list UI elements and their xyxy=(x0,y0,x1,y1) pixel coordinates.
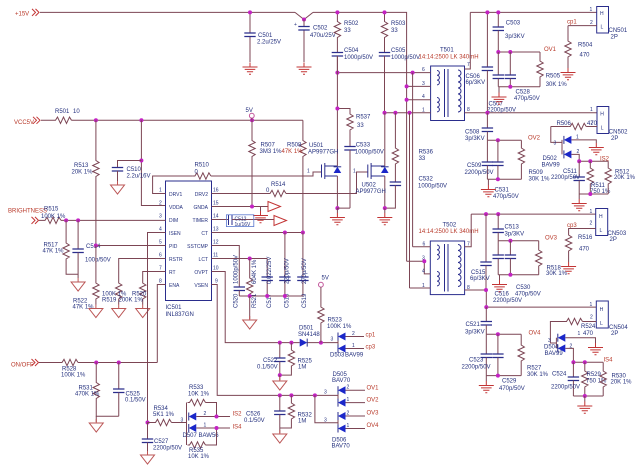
svg-text:100K 1%: 100K 1% xyxy=(41,214,66,220)
svg-text:C528: C528 xyxy=(516,90,531,96)
svg-text:BAV99: BAV99 xyxy=(542,162,561,168)
ground C522 R525 xyxy=(273,375,287,390)
svg-text:D503: D503 xyxy=(330,353,345,359)
wire T501 pin1 xyxy=(385,108,431,114)
svg-text:D504: D504 xyxy=(544,345,559,351)
resistor R525 1M xyxy=(280,343,313,376)
svg-text:R502: R502 xyxy=(344,21,359,27)
capacitor C530 xyxy=(505,241,541,298)
svg-text:6p/3KV: 6p/3KV xyxy=(466,80,486,86)
svg-text:OV2: OV2 xyxy=(367,398,380,404)
ground OV1 network xyxy=(492,87,507,105)
node OV3 xyxy=(498,236,557,242)
junction OV2 bottom xyxy=(496,177,500,181)
svg-text:2P: 2P xyxy=(611,331,618,337)
capacitor C525 xyxy=(113,363,146,417)
svg-text:1: 1 xyxy=(578,331,581,337)
svg-text:IS4: IS4 xyxy=(604,358,614,364)
svg-text:3M3 1%: 3M3 1% xyxy=(260,149,283,155)
dual diode D504 BAV99 xyxy=(544,331,596,362)
resistor R536 33 xyxy=(392,113,433,166)
svg-text:100K 1%: 100K 1% xyxy=(61,373,86,379)
resistor R509 30K xyxy=(518,140,550,182)
svg-text:OV4: OV4 xyxy=(529,331,542,337)
svg-text:2: 2 xyxy=(159,201,162,207)
svg-text:470: 470 xyxy=(587,121,598,127)
svg-text:2200p/50V: 2200p/50V xyxy=(465,170,494,176)
svg-text:SN4148: SN4148 xyxy=(298,332,320,338)
svg-text:IS4: IS4 xyxy=(233,425,243,431)
svg-text:2200p/50V: 2200p/50V xyxy=(153,446,182,452)
svg-text:1000p/50V: 1000p/50V xyxy=(355,149,384,155)
wire IS4 bottom xyxy=(573,395,603,397)
svg-text:8: 8 xyxy=(159,279,162,285)
wire T501 pin8 HV2 xyxy=(465,107,598,113)
svg-text:OV4: OV4 xyxy=(367,423,380,429)
svg-text:IS2: IS2 xyxy=(233,412,243,418)
svg-text:10: 10 xyxy=(73,109,80,115)
svg-text:8: 8 xyxy=(467,107,470,113)
junction ONOFF-C525 xyxy=(117,361,121,365)
svg-text:1: 1 xyxy=(590,302,593,308)
svg-text:T502: T502 xyxy=(443,223,457,229)
node IS2 xyxy=(579,157,609,163)
svg-text:INL837GN: INL837GN xyxy=(166,312,194,318)
svg-text:1000p/50V: 1000p/50V xyxy=(391,55,420,61)
svg-text:T501: T501 xyxy=(440,48,454,54)
ground IS2 xyxy=(572,194,587,211)
svg-text:C520: C520 xyxy=(234,293,240,308)
resistor R511 750 xyxy=(587,161,611,195)
svg-text:L: L xyxy=(600,228,603,234)
resistor R522 47K xyxy=(73,246,100,311)
capacitor C528 xyxy=(505,52,540,102)
svg-text:14: 14 xyxy=(213,214,219,220)
svg-text:L: L xyxy=(601,25,604,31)
svg-text:3: 3 xyxy=(159,214,162,220)
junction U501 source xyxy=(335,206,339,210)
svg-text:10K 1%: 10K 1% xyxy=(188,454,210,460)
dual diode D503 BAV99 xyxy=(330,331,364,359)
svg-text:RSTR: RSTR xyxy=(169,257,183,263)
junction IS4-C524 xyxy=(571,360,575,364)
svg-text:1: 1 xyxy=(590,209,593,215)
svg-text:C506: C506 xyxy=(466,74,481,80)
svg-text:1: 1 xyxy=(590,7,593,13)
svg-text:2.2u/16V: 2.2u/16V xyxy=(127,174,151,180)
svg-text:33: 33 xyxy=(419,156,426,162)
wire OV4 bottom rail xyxy=(486,375,521,377)
svg-text:R521: R521 xyxy=(252,293,258,308)
wire OVPT xyxy=(212,272,339,343)
wire R506 to D502 xyxy=(551,127,562,143)
junction VCC-VDDA xyxy=(139,118,143,122)
net ON/OFF label xyxy=(11,359,39,369)
svg-text:R509: R509 xyxy=(529,170,544,176)
svg-text:C503: C503 xyxy=(506,21,521,27)
junction OV3 bottom xyxy=(508,273,512,277)
junction U502 source xyxy=(383,206,387,210)
svg-text:R501: R501 xyxy=(55,109,70,115)
svg-text:30K 1%: 30K 1% xyxy=(546,271,568,277)
svg-text:DRV1: DRV1 xyxy=(169,192,182,198)
svg-text:1: 1 xyxy=(590,107,593,113)
capacitor C517 xyxy=(262,257,274,308)
svg-text:3p/3KV: 3p/3KV xyxy=(465,136,485,142)
svg-text:C504: C504 xyxy=(344,48,359,54)
svg-text:100K 1%: 100K 1% xyxy=(327,324,352,330)
capacitor C523 xyxy=(462,334,492,375)
svg-text:33: 33 xyxy=(391,28,398,34)
svg-text:14:14:2500 LK 340mH: 14:14:2500 LK 340mH xyxy=(419,229,479,235)
svg-text:20K 1%: 20K 1% xyxy=(72,170,94,176)
capacitor C504 xyxy=(332,40,373,73)
resistor R519 100K xyxy=(102,259,166,305)
svg-text:ENA: ENA xyxy=(169,283,180,289)
svg-text:1000p/50V: 1000p/50V xyxy=(344,55,373,61)
wire HV1 line xyxy=(470,11,596,13)
svg-text:1: 1 xyxy=(353,169,356,175)
capacitor C531 xyxy=(492,140,519,200)
svg-text:R506: R506 xyxy=(557,121,572,127)
buffer GNDA arrow xyxy=(268,202,281,212)
resistor R530 20K xyxy=(600,362,632,396)
svg-text:R523: R523 xyxy=(328,318,343,324)
svg-text:R503: R503 xyxy=(391,21,406,27)
resistor R506 470 xyxy=(551,121,598,130)
junction HV3-C515 xyxy=(484,212,488,216)
svg-text:7: 7 xyxy=(467,242,470,248)
resistor R524 470 xyxy=(550,318,596,343)
svg-text:D507: D507 xyxy=(183,433,198,439)
svg-text:470: 470 xyxy=(579,247,590,253)
junction VSEN-C526 xyxy=(278,393,282,397)
net VCC5V label xyxy=(14,117,40,126)
svg-text:R527: R527 xyxy=(527,366,542,372)
wire T502 pin7 riser xyxy=(465,214,472,247)
svg-text:470u/25V: 470u/25V xyxy=(310,33,336,39)
ground C526 R532 xyxy=(273,428,287,443)
connector CN503 2P xyxy=(590,209,627,244)
resistor R507 3M3 xyxy=(249,120,282,206)
svg-text:30K 1%: 30K 1% xyxy=(529,177,551,183)
svg-text:DRV2: DRV2 xyxy=(195,192,208,198)
svg-text:H: H xyxy=(600,307,604,313)
transformer T501 xyxy=(431,48,465,121)
svg-text:470p/50V: 470p/50V xyxy=(514,96,540,102)
svg-text:C533: C533 xyxy=(356,142,371,148)
svg-text:C509: C509 xyxy=(467,163,482,169)
svg-text:2200p/50V: 2200p/50V xyxy=(462,365,491,371)
svg-text:6: 6 xyxy=(423,242,426,248)
junction OVPT-C522 xyxy=(278,341,282,345)
svg-text:6p/3KV: 6p/3KV xyxy=(470,276,490,282)
resistor R533 10K xyxy=(188,385,217,417)
junction rail-R503 xyxy=(383,10,387,14)
capacitor C529 xyxy=(492,334,525,392)
junction CT-C518 xyxy=(283,231,287,235)
junction OV1-C528 xyxy=(508,50,512,54)
svg-text:IC501: IC501 xyxy=(166,305,183,311)
ground cap bank xyxy=(243,296,257,329)
svg-text:4: 4 xyxy=(159,227,162,233)
resistor R529 750 xyxy=(582,362,607,396)
ground D502 pin1 xyxy=(589,143,604,155)
ground C501 xyxy=(243,63,258,75)
svg-text:BAV70: BAV70 xyxy=(332,378,351,384)
svg-text:1000p/50V: 1000p/50V xyxy=(234,255,240,284)
net BRIGHTNESS label xyxy=(8,209,47,224)
svg-text:220p/50V: 220p/50V xyxy=(285,258,291,284)
resistor R517 47K xyxy=(43,220,79,274)
svg-text:R504: R504 xyxy=(578,43,593,49)
svg-text:R516: R516 xyxy=(578,235,593,241)
junction VSEN-R532 xyxy=(289,393,293,397)
junction OV2-C531 xyxy=(496,138,500,142)
wire PID xyxy=(96,245,166,247)
capacitor C505 xyxy=(379,40,420,113)
svg-text:470: 470 xyxy=(583,331,594,337)
svg-text:2P: 2P xyxy=(611,136,618,142)
junction DIM-R517 xyxy=(64,218,68,222)
svg-text:3p/3KV: 3p/3KV xyxy=(465,330,485,336)
capacitor C518 xyxy=(279,233,290,309)
svg-text:2: 2 xyxy=(347,411,350,417)
wire HV4 line xyxy=(486,306,596,308)
connector CN502 2P xyxy=(590,107,628,143)
junction IS4 bottom xyxy=(583,394,587,398)
junction bank3 xyxy=(283,294,287,298)
svg-text:R519: R519 xyxy=(102,298,117,304)
wire OV3 bottom rail xyxy=(498,274,539,276)
resistor R508 47K xyxy=(282,120,307,232)
svg-text:6: 6 xyxy=(159,253,162,259)
svg-text:R536: R536 xyxy=(419,150,434,156)
resistor R521 604K xyxy=(247,259,259,309)
junction DIM-C514 xyxy=(76,218,80,222)
wire T501 pin3 xyxy=(407,81,431,87)
capacitor C510 xyxy=(112,161,151,182)
svg-text:VSEN: VSEN xyxy=(194,283,208,289)
wire IS2 bottom xyxy=(579,193,608,195)
svg-text:H: H xyxy=(599,214,603,220)
capacitor C514 xyxy=(72,220,110,278)
svg-text:7: 7 xyxy=(467,62,470,68)
capacitor C526 xyxy=(244,395,285,428)
wire VCC5V xyxy=(41,119,303,121)
resistor R534 5K1 xyxy=(148,406,187,426)
wire OV2 bottom rail xyxy=(487,178,521,180)
capacitor C516 xyxy=(493,241,523,304)
svg-text:14:14:2500 LK 340mH: 14:14:2500 LK 340mH xyxy=(419,55,479,61)
svg-text:TIMER: TIMER xyxy=(192,218,208,224)
svg-text:4: 4 xyxy=(422,94,425,100)
svg-text:D502: D502 xyxy=(543,156,558,162)
ground D504 pin1 xyxy=(588,343,603,355)
svg-text:15: 15 xyxy=(213,201,219,207)
ground OV4 network xyxy=(479,376,494,393)
diode D501 SN4148 xyxy=(298,326,320,347)
svg-text:270p/50V: 270p/50V xyxy=(302,258,308,284)
svg-text:47K 1%: 47K 1% xyxy=(282,149,304,155)
wire T502 pin8 xyxy=(465,285,487,307)
svg-text:R510: R510 xyxy=(195,163,210,169)
svg-text:R533: R533 xyxy=(189,385,204,391)
wire DIM xyxy=(39,219,166,221)
ground C527 xyxy=(141,451,155,464)
svg-text:33: 33 xyxy=(344,28,351,34)
wire T502 pin3 pin4 xyxy=(407,256,431,275)
junction VSEN-D506 xyxy=(313,393,317,397)
junction bottom-C528 xyxy=(508,85,512,89)
svg-text:C526: C526 xyxy=(246,412,261,418)
node OV1 xyxy=(498,47,556,53)
svg-text:2200p/50V: 2200p/50V xyxy=(551,385,580,391)
svg-text:C514: C514 xyxy=(86,244,101,250)
svg-text:604K 1%: 604K 1% xyxy=(252,259,258,284)
dual diode D505 BAV70 xyxy=(324,372,365,407)
capacitor C507 xyxy=(487,52,516,113)
svg-text:1: 1 xyxy=(576,135,579,141)
svg-text:C502: C502 xyxy=(313,26,328,32)
svg-text:VDDA: VDDA xyxy=(169,205,184,211)
svg-text:1: 1 xyxy=(307,169,310,175)
ground R504 xyxy=(561,68,576,80)
svg-text:U502: U502 xyxy=(362,183,377,189)
svg-text:PID: PID xyxy=(169,244,178,250)
svg-text:ON/OFF: ON/OFF xyxy=(11,363,34,369)
svg-text:C519: C519 xyxy=(302,293,308,308)
ground GNDA xyxy=(253,207,268,223)
node OV2 xyxy=(487,136,540,142)
svg-text:200K 1%: 200K 1% xyxy=(119,298,144,304)
connector CN501 2P xyxy=(590,7,628,41)
ground R516 xyxy=(561,262,576,274)
junction pin3 xyxy=(405,84,409,88)
ground IS4 xyxy=(577,396,592,413)
svg-text:L: L xyxy=(601,126,604,132)
svg-text:20K 1%: 20K 1% xyxy=(614,175,636,181)
svg-text:3: 3 xyxy=(548,338,551,344)
junction IS4-R529 xyxy=(583,360,587,364)
wire CN501 pin2 xyxy=(568,25,597,27)
resistor R537 33 xyxy=(337,109,371,133)
svg-text:2200p/50V: 2200p/50V xyxy=(551,175,580,181)
capacitor C515 xyxy=(470,214,492,290)
resistor R523 100K xyxy=(318,287,352,343)
wire LCT xyxy=(212,258,268,260)
svg-text:C532: C532 xyxy=(419,177,434,183)
wire +15V rail xyxy=(40,12,407,261)
svg-text:2: 2 xyxy=(347,385,350,391)
svg-text:100p/50V: 100p/50V xyxy=(85,258,111,264)
dual diode D507 BAW56 xyxy=(181,403,231,446)
svg-text:AP9977GH: AP9977GH xyxy=(356,189,386,195)
ground R517 C514 xyxy=(71,278,85,291)
resistor R505 30K xyxy=(537,52,568,88)
capacitor C511 xyxy=(551,161,585,194)
junction PID-R513 xyxy=(94,244,98,248)
resistor R504 470 xyxy=(565,26,593,68)
svg-text:10: 10 xyxy=(213,266,219,272)
wire VSEN xyxy=(212,285,339,396)
capacitor C501 xyxy=(244,12,281,62)
capacitor C519 xyxy=(297,233,308,309)
svg-text:2: 2 xyxy=(577,149,580,155)
dual diode D506 BAV70 xyxy=(315,395,365,449)
wire tie pin6 to T502 xyxy=(412,73,414,247)
svg-text:30K 1%: 30K 1% xyxy=(527,372,549,378)
svg-text:C513: C513 xyxy=(505,224,520,230)
junction OVPT-R523 xyxy=(319,341,323,345)
svg-text:47K 1%: 47K 1% xyxy=(43,249,65,255)
svg-text:+15V: +15V xyxy=(15,12,29,18)
junction bank1 xyxy=(248,294,252,298)
ground R522 xyxy=(89,305,103,318)
svg-text:OV2: OV2 xyxy=(528,136,541,142)
svg-text:1M: 1M xyxy=(298,419,306,425)
junction ISEN node xyxy=(146,421,150,425)
svg-text:R513: R513 xyxy=(74,163,89,169)
svg-text:1: 1 xyxy=(422,283,425,289)
svg-text:C501: C501 xyxy=(258,33,273,39)
resistor R527 30K xyxy=(518,334,549,378)
svg-text:470p/50V: 470p/50V xyxy=(493,194,519,200)
junction LCT-R521 xyxy=(248,257,252,261)
wire OV1 bottom rail xyxy=(498,86,540,88)
svg-text:5V: 5V xyxy=(322,276,329,282)
svg-text:12: 12 xyxy=(213,240,219,246)
svg-text:2: 2 xyxy=(352,331,355,337)
svg-text:C527: C527 xyxy=(154,439,169,445)
resistor R513 20K xyxy=(72,120,100,245)
transistor U501 AP9977GH xyxy=(307,56,341,208)
junction HV1-C506 xyxy=(485,10,489,14)
resistor R518 30K xyxy=(536,241,568,277)
svg-text:BAV70: BAV70 xyxy=(332,444,351,450)
junction bank2 xyxy=(265,294,269,298)
junction HV3-C513 xyxy=(496,212,500,216)
node IS4 xyxy=(573,358,613,364)
svg-text:C524: C524 xyxy=(552,372,567,378)
svg-text:RT: RT xyxy=(169,270,176,276)
wire cap bank bottom xyxy=(239,295,303,297)
svg-text:R529: R529 xyxy=(587,372,602,378)
svg-text:1: 1 xyxy=(422,108,425,114)
svg-text:cp3: cp3 xyxy=(567,223,577,229)
svg-text:3: 3 xyxy=(324,418,327,424)
svg-text:0.022/25V: 0.022/25V xyxy=(267,257,273,284)
svg-text:1: 1 xyxy=(159,188,162,194)
svg-text:R537: R537 xyxy=(356,115,371,121)
junction OV4 bottom xyxy=(496,374,500,378)
junction pin1-snubber xyxy=(393,111,397,115)
svg-text:OV3: OV3 xyxy=(367,411,380,417)
svg-text:AP9977GH: AP9977GH xyxy=(308,150,338,156)
svg-text:R507: R507 xyxy=(261,143,276,149)
capacitor C503 xyxy=(493,12,525,52)
svg-text:C531: C531 xyxy=(495,188,510,194)
capacitor C527 xyxy=(142,423,182,454)
svg-text:1: 1 xyxy=(352,343,355,349)
svg-text:1u/16V: 1u/16V xyxy=(235,222,252,228)
capacitor C533 xyxy=(337,132,384,208)
svg-text:470: 470 xyxy=(580,53,591,59)
svg-text:3: 3 xyxy=(324,390,327,396)
svg-text:C521: C521 xyxy=(466,322,481,328)
capacitor C506 xyxy=(466,12,494,112)
svg-text:C516: C516 xyxy=(495,292,510,298)
